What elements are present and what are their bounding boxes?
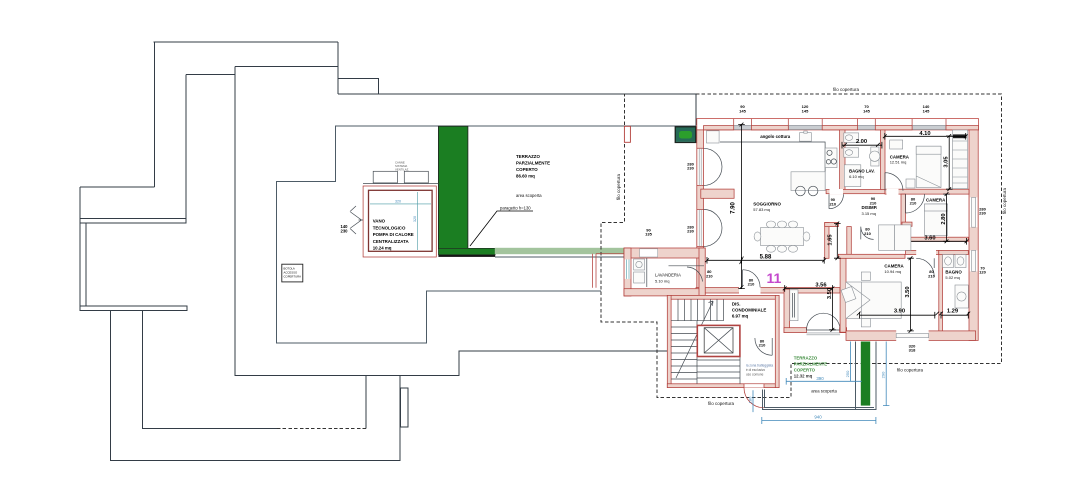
top wall niche xyxy=(640,249,658,257)
camera3 top wall xyxy=(838,254,905,258)
svg-text:3.90: 3.90 xyxy=(894,309,905,315)
TERRAZZO PARZ. COPERTO label bottom xyxy=(794,356,827,379)
svg-text:10.94 mq: 10.94 mq xyxy=(884,269,901,274)
lobby bottom wall xyxy=(784,328,807,333)
svg-text:210: 210 xyxy=(870,201,877,206)
svg-text:la zona tratteggiata: la zona tratteggiata xyxy=(746,364,773,368)
svg-text:TECNOLOGICO: TECNOLOGICO xyxy=(373,225,406,230)
svg-text:250: 250 xyxy=(845,370,850,377)
left wall dim labels xyxy=(687,162,694,234)
door arcs left wall upper xyxy=(704,148,723,185)
svg-text:10.24 mq: 10.24 mq xyxy=(373,245,392,250)
lavanderia interior fixtures xyxy=(634,259,645,270)
right wall dim labels xyxy=(979,207,986,275)
stairs bottom flight xyxy=(697,357,740,384)
svg-text:CONDOMINIALE: CONDOMINIALE xyxy=(732,308,766,313)
svg-text:2.00: 2.00 xyxy=(856,139,867,145)
green planter foot xyxy=(438,248,495,255)
wall soggiorno/bagnolav xyxy=(840,130,845,192)
dim 1.29 xyxy=(941,312,968,319)
lobby wardrobe xyxy=(790,290,798,321)
svg-text:57.83 mq: 57.83 mq xyxy=(753,207,770,212)
camera2 bottom wall xyxy=(894,237,968,241)
camera1 door opening xyxy=(887,189,899,195)
svg-text:è di esclusivo: è di esclusivo xyxy=(746,368,765,372)
svg-text:210: 210 xyxy=(864,231,871,236)
svg-text:3.50: 3.50 xyxy=(827,288,833,299)
LAVANDERIA block xyxy=(593,228,706,297)
svg-text:210: 210 xyxy=(759,343,766,348)
svg-text:320: 320 xyxy=(413,216,417,222)
soggiorno bottom door opening xyxy=(739,287,761,294)
svg-text:1.29: 1.29 xyxy=(947,309,959,315)
threshold lines xyxy=(807,333,841,335)
svg-text:CAMERA: CAMERA xyxy=(926,198,946,203)
kitchen counter xyxy=(720,142,825,191)
wardrobe squares near disimp xyxy=(879,225,895,250)
svg-text:uso comune: uso comune xyxy=(746,373,764,377)
dim 2.00 xyxy=(842,142,882,149)
svg-text:210: 210 xyxy=(928,274,935,279)
dim 3.90 xyxy=(860,312,935,319)
disimp to lobby door arc xyxy=(861,227,874,240)
chimney xyxy=(401,388,409,427)
svg-text:1.65: 1.65 xyxy=(828,234,834,246)
svg-text:POMPA DI CALORE: POMPA DI CALORE xyxy=(373,232,414,237)
left wall pier xyxy=(701,189,734,198)
svg-text:COPERTURA: COPERTURA xyxy=(284,275,302,279)
roof outline upper-left xyxy=(80,42,696,376)
svg-text:filo copertura: filo copertura xyxy=(616,173,621,200)
camera3 left wall xyxy=(840,258,846,332)
right wall xyxy=(969,130,978,341)
door at vano left xyxy=(351,212,364,228)
dim 3.05 vertical xyxy=(946,136,953,189)
svg-text:4.10: 4.10 xyxy=(919,131,930,137)
top wall xyxy=(697,119,979,130)
disimp/lobby wall xyxy=(847,227,852,259)
svg-text:paragetto h=130: paragetto h=130 xyxy=(500,206,531,211)
door below stairwell xyxy=(744,384,764,387)
dining table xyxy=(754,221,810,252)
svg-text:180: 180 xyxy=(748,396,753,403)
island xyxy=(791,172,825,191)
dim 4.10 xyxy=(885,133,966,140)
svg-text:COPERTO: COPERTO xyxy=(794,368,816,373)
svg-text:120: 120 xyxy=(979,270,986,275)
TERRAZZO PARZIALMENTE COPERTO label (center) xyxy=(516,154,550,179)
soggiorno bottom wall xyxy=(696,288,840,293)
dim 1.65 vertical xyxy=(834,223,841,258)
bagnolav bottom wall xyxy=(826,190,885,194)
svg-text:VANO: VANO xyxy=(373,219,386,224)
bagno lav fixtures xyxy=(844,133,880,187)
svg-text:area scoperta: area scoperta xyxy=(516,193,542,198)
lavanderia door xyxy=(669,266,705,282)
svg-text:DISIMP.: DISIMP. xyxy=(862,205,878,210)
svg-text:area scoperta: area scoperta xyxy=(811,389,837,394)
camera3/bagno2 wall xyxy=(939,250,943,335)
elevator shaft xyxy=(697,325,740,356)
svg-text:3.05: 3.05 xyxy=(944,156,950,168)
svg-text:3.56: 3.56 xyxy=(815,283,827,289)
svg-text:940: 940 xyxy=(814,415,822,420)
svg-text:230: 230 xyxy=(341,229,349,234)
svg-text:filo copertura: filo copertura xyxy=(897,368,924,373)
svg-text:318: 318 xyxy=(909,348,916,353)
svg-text:angolo cottura: angolo cottura xyxy=(760,134,790,139)
svg-text:BAGNO: BAGNO xyxy=(945,270,962,275)
svg-text:filo copertura: filo copertura xyxy=(1002,187,1007,214)
svg-text:5.10 mq: 5.10 mq xyxy=(655,279,669,284)
camera1 bottom wall xyxy=(885,189,969,194)
skylight panels above vano xyxy=(373,171,397,183)
svg-text:210: 210 xyxy=(706,274,713,279)
svg-text:SOGGIORNO: SOGGIORNO xyxy=(753,202,781,207)
svg-text:7.90: 7.90 xyxy=(731,202,737,214)
svg-text:145: 145 xyxy=(802,109,809,114)
svg-text:390: 390 xyxy=(816,376,824,381)
svg-text:320: 320 xyxy=(395,200,401,204)
svg-text:CAMERA: CAMERA xyxy=(884,264,904,269)
camera2 left lower stub xyxy=(902,222,912,226)
stairwell door right xyxy=(755,338,772,355)
bottom wall window opening xyxy=(896,330,928,341)
dim 7.90 vertical xyxy=(738,125,745,289)
bagnolav door arc xyxy=(830,189,844,194)
small green box on top wall xyxy=(675,127,695,143)
wall bagnolav/camera1 xyxy=(881,130,886,192)
stair arrow diagonal xyxy=(676,301,713,378)
svg-text:5.88: 5.88 xyxy=(760,254,772,260)
svg-text:PARZIALMENTE: PARZIALMENTE xyxy=(794,362,827,367)
svg-text:3.15 mq: 3.15 mq xyxy=(862,211,876,216)
svg-text:6.97 mq: 6.97 mq xyxy=(732,314,749,319)
bagno2 top wall xyxy=(939,250,969,254)
svg-text:COPERTO: COPERTO xyxy=(516,167,538,172)
svg-text:230: 230 xyxy=(687,166,694,171)
svg-text:5.02 mq: 5.02 mq xyxy=(945,275,959,280)
svg-text:DIS.: DIS. xyxy=(732,302,741,307)
balcony bar upper-left xyxy=(80,219,186,224)
black base line under planter xyxy=(438,255,495,257)
wall disimp/camera2 vertical xyxy=(901,194,906,241)
svg-text:TERRAZZO: TERRAZZO xyxy=(794,356,818,361)
svg-text:12.32 mq: 12.32 mq xyxy=(794,374,813,379)
svg-text:145: 145 xyxy=(923,109,930,114)
svg-text:PARZIALMENTE: PARZIALMENTE xyxy=(516,161,550,166)
teal dims inside vano xyxy=(370,192,431,250)
small red L left of lavanderia xyxy=(593,254,625,288)
balcony side bar xyxy=(80,223,86,306)
svg-text:TERRAZZO: TERRAZZO xyxy=(516,154,540,159)
svg-text:LAVANDERIA: LAVANDERIA xyxy=(655,273,681,278)
window dim labels above top wall xyxy=(739,104,930,114)
botola box xyxy=(282,264,303,282)
left wall openings xyxy=(698,148,703,246)
lobby left wall xyxy=(784,289,790,333)
dim 3.60 xyxy=(894,238,967,245)
svg-text:3.60: 3.60 xyxy=(924,236,935,242)
svg-text:12.51 mq: 12.51 mq xyxy=(890,160,907,165)
camera1 door arc xyxy=(885,173,903,191)
lobby door arc bottom-left xyxy=(743,270,761,288)
dim 3.50 vertical (camera3) xyxy=(907,258,914,331)
light green parapet band xyxy=(495,248,625,254)
dim 2.80 vertical xyxy=(943,194,950,241)
svg-text:290: 290 xyxy=(881,371,886,378)
disimp top stub xyxy=(825,223,839,227)
svg-text:CENTRALIZZATA: CENTRALIZZATA xyxy=(373,239,410,244)
dashed filo copertura boundary xyxy=(601,94,1002,397)
camera1 furniture xyxy=(890,130,968,189)
svg-text:145: 145 xyxy=(863,109,870,114)
dim 3.56 xyxy=(785,285,833,292)
stove xyxy=(825,148,837,168)
sink xyxy=(800,133,812,142)
VANO TECNOLOGICO box xyxy=(363,184,438,257)
bottom terrace outline xyxy=(763,342,877,410)
svg-text:filo copertura: filo copertura xyxy=(833,87,860,92)
stairs left flight (horizontal lines) xyxy=(671,321,697,384)
door arcs left wall lower xyxy=(704,209,723,246)
svg-text:11: 11 xyxy=(767,270,782,286)
svg-text:230: 230 xyxy=(979,211,986,216)
svg-text:210: 210 xyxy=(748,282,755,287)
svg-text:210: 210 xyxy=(829,202,836,207)
svg-text:BAGNO LAV.: BAGNO LAV. xyxy=(849,169,875,174)
svg-text:86.60 mq: 86.60 mq xyxy=(516,174,535,179)
lower building outline xyxy=(110,311,408,461)
bottom wall camera3/bagno2 xyxy=(846,331,976,341)
balcony bar lower-left xyxy=(80,306,187,311)
dim 3.50 vertical (lobby) xyxy=(829,288,836,329)
svg-text:3.50: 3.50 xyxy=(905,286,911,297)
green bar bottom xyxy=(861,342,870,406)
svg-text:6.10 mq: 6.10 mq xyxy=(849,174,863,179)
svg-text:135: 135 xyxy=(645,232,652,237)
stairs upper flight (vertical lines) xyxy=(671,299,723,321)
lobby double door to terrace xyxy=(807,313,841,330)
left wall glazing lines xyxy=(699,148,701,246)
svg-text:230: 230 xyxy=(687,229,694,234)
green planter bar xyxy=(438,126,468,249)
terrace outline (gray) xyxy=(276,126,696,343)
dimension diagonal ticks xyxy=(705,123,970,333)
svg-text:filo copertura: filo copertura xyxy=(708,401,735,406)
dim 5.88 xyxy=(707,257,824,264)
disimp left wall xyxy=(825,223,829,259)
tiny note above panels xyxy=(395,161,409,172)
blue dimension lines bottom xyxy=(748,342,890,425)
svg-text:145: 145 xyxy=(739,109,746,114)
svg-text:VENTILAZ.: VENTILAZ. xyxy=(395,167,409,171)
red parapet marker on dashed line xyxy=(624,126,630,142)
svg-text:2.80: 2.80 xyxy=(941,213,947,224)
camera2 door arc xyxy=(906,194,925,213)
right wall window openings xyxy=(970,197,978,271)
left wall xyxy=(697,130,704,293)
lavanderia window left xyxy=(625,259,631,279)
window sill box top-left xyxy=(707,131,720,143)
svg-text:210: 210 xyxy=(910,201,917,206)
